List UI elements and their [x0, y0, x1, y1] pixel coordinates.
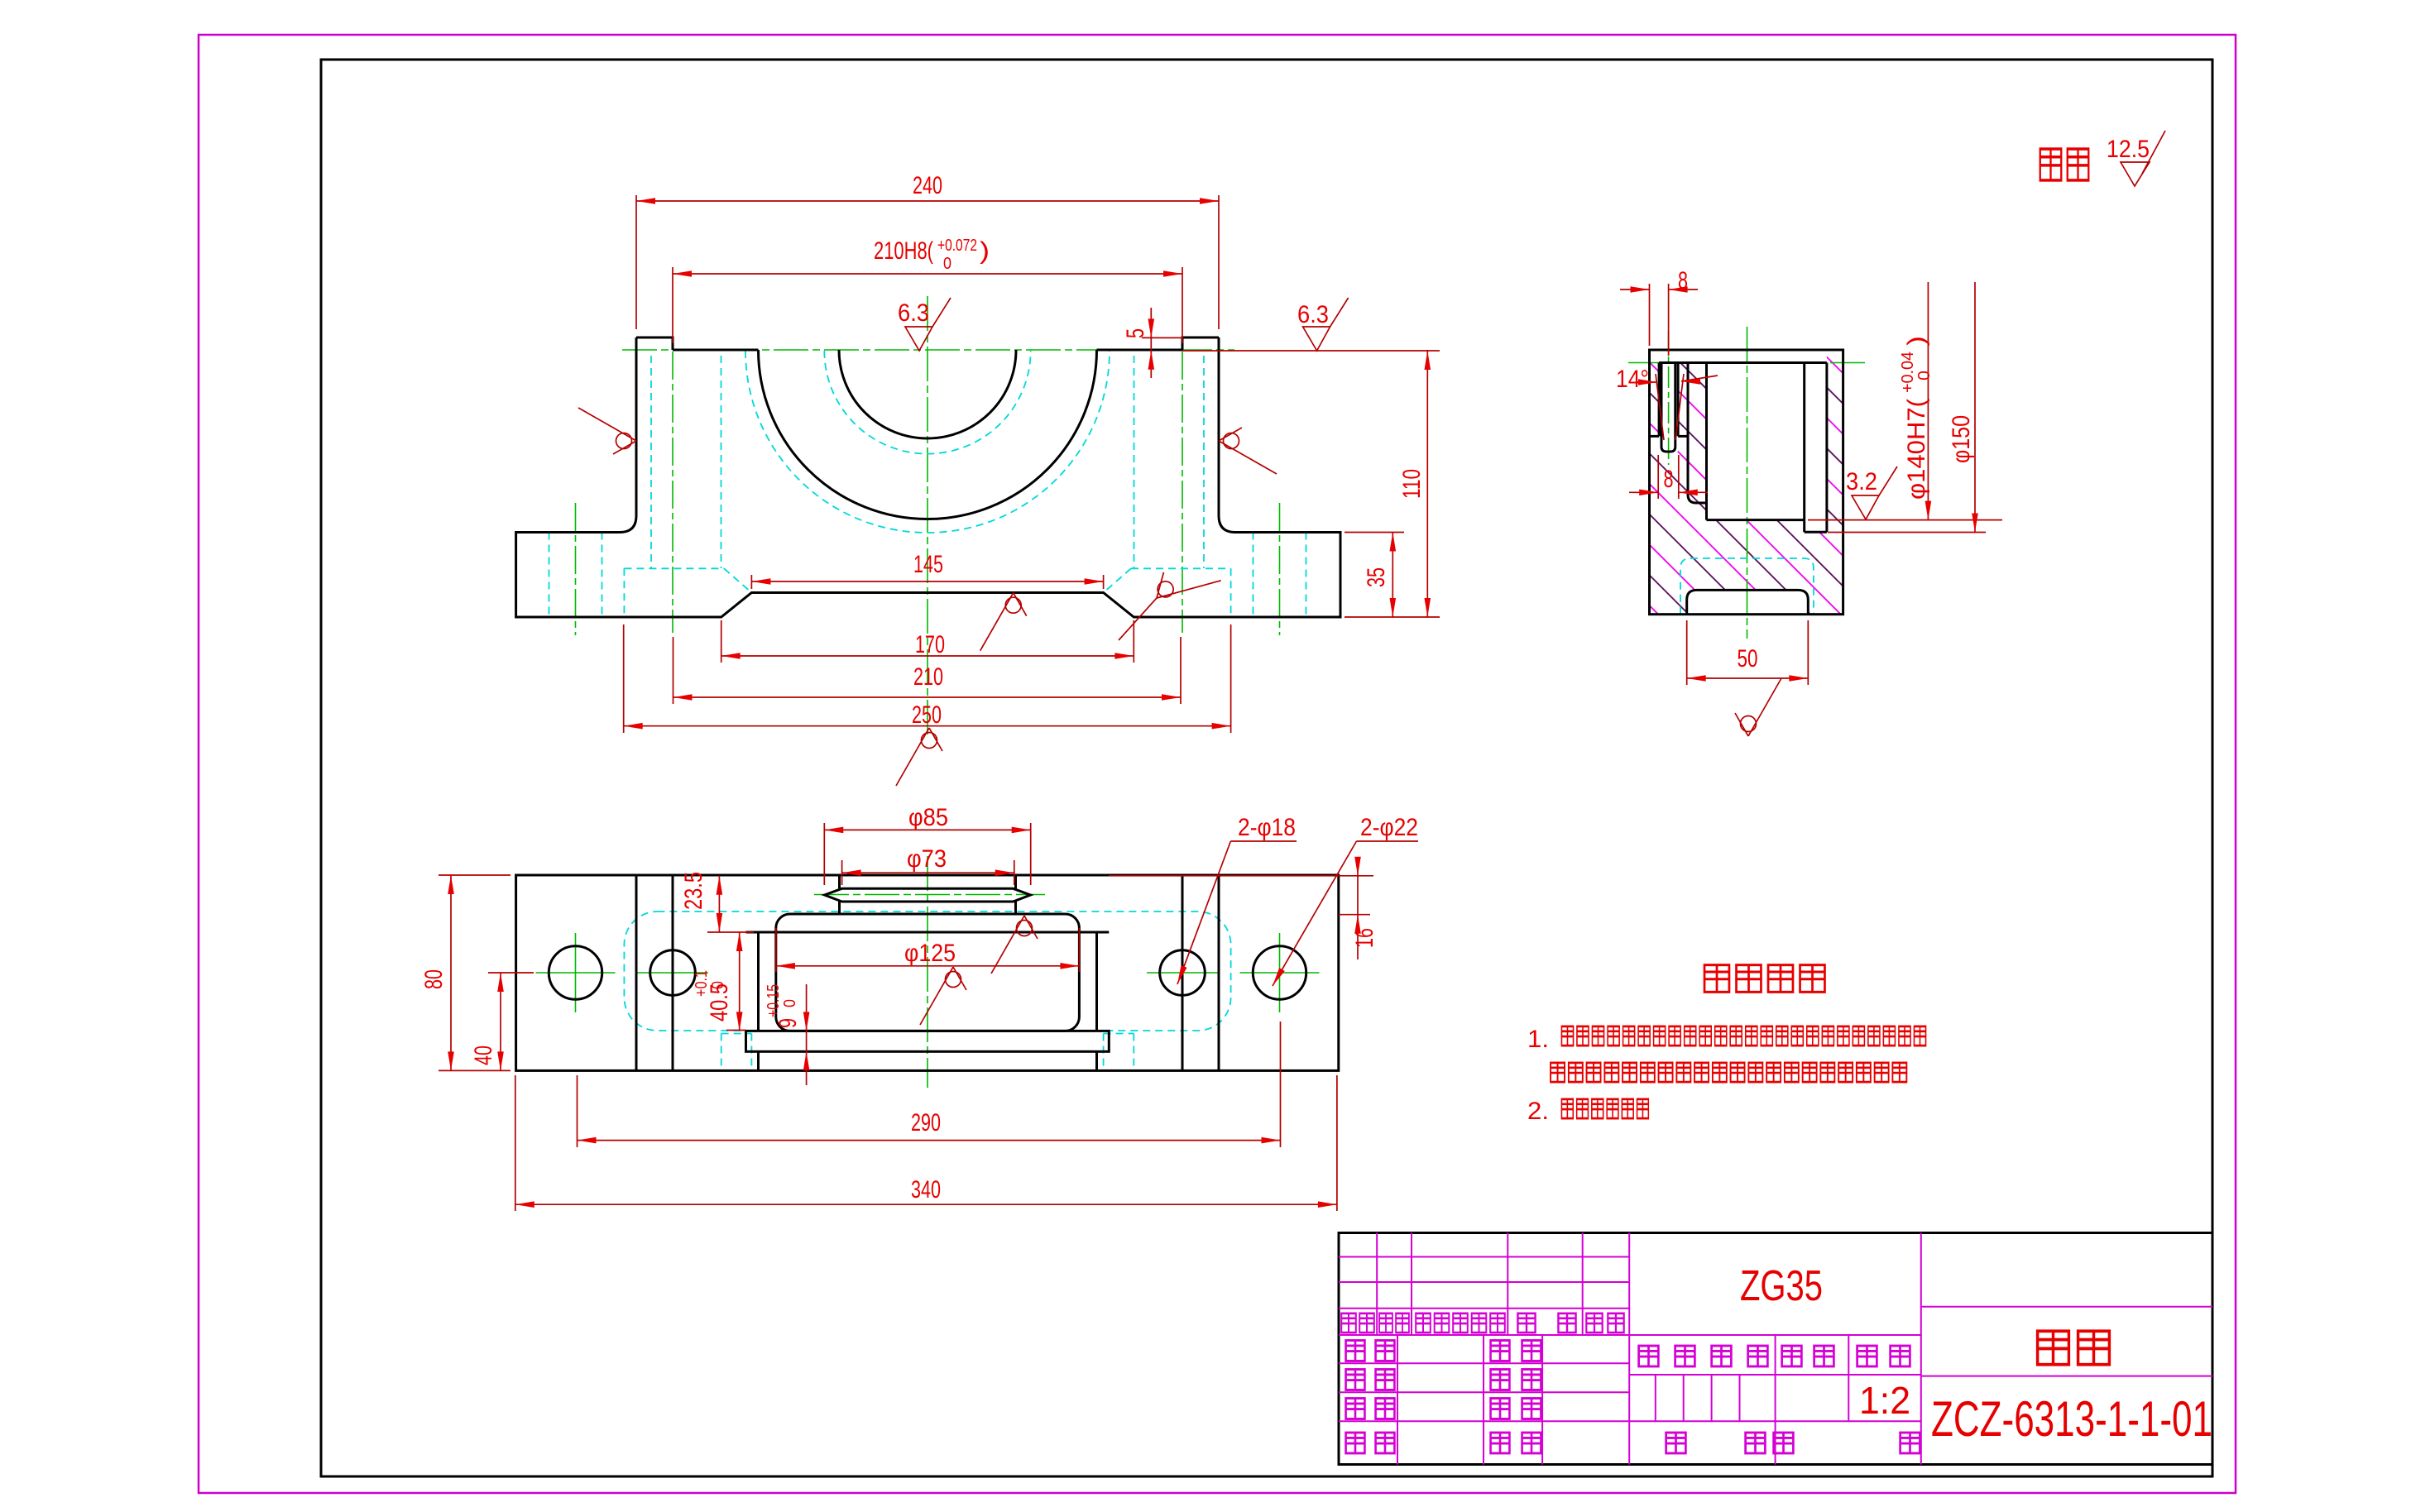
40: [488, 972, 534, 974]
svg-text:16: 16: [1351, 928, 1378, 948]
cyan hidden slot pocket section: [1680, 558, 1814, 615]
svg-text:8: 8: [1664, 466, 1674, 493]
svg-text:210: 210: [913, 663, 943, 691]
5 dim: [1142, 337, 1183, 338]
section red dims: [1620, 282, 2002, 685]
bottom slot: [1687, 590, 1809, 614]
svg-text:110: 110: [1398, 469, 1426, 499]
svg-text:φ150: φ150: [1948, 415, 1975, 463]
green centerlines top view: [536, 856, 1320, 1088]
hidden bolt hole lines: [549, 533, 550, 618]
recess floor segments: [673, 349, 759, 352]
svg-text:210H8(: 210H8(: [874, 237, 933, 265]
svg-text:40: 40: [470, 1045, 497, 1065]
svg-text:1.: 1.: [1527, 1026, 1549, 1053]
phi140 edges: [757, 932, 760, 1031]
svg-text:φ85: φ85: [908, 804, 948, 831]
svg-text:6.3: 6.3: [1297, 301, 1329, 328]
svg-text:2-φ18: 2-φ18: [1238, 814, 1296, 841]
inner black border frame: [321, 60, 2212, 1476]
svg-text:ZG35: ZG35: [1740, 1262, 1823, 1310]
svg-text:0: 0: [781, 999, 799, 1007]
phi73 semicircle: [839, 350, 1016, 438]
svg-text:8: 8: [1678, 267, 1688, 294]
210H8: [672, 267, 673, 343]
2-phi18 2-phi22 leaders: [1230, 840, 1297, 842]
svg-text:φ73: φ73: [907, 845, 947, 873]
210: [673, 637, 674, 704]
svg-text:0: 0: [709, 981, 727, 989]
hatching: [1650, 350, 1843, 615]
green centerlines front view: [576, 296, 1280, 736]
svg-text:+0.1: +0.1: [693, 970, 711, 997]
80: [439, 874, 510, 876]
phi73 boss: [838, 875, 841, 888]
svg-text:145: 145: [913, 551, 943, 578]
145: [750, 575, 752, 589]
svg-text:240: 240: [913, 172, 942, 199]
phi140 semicircle: [759, 350, 1097, 519]
16: [1109, 875, 1373, 877]
hidden phi150 semicircle: [745, 351, 1110, 533]
svg-text:+0.072: +0.072: [937, 237, 977, 255]
svg-text:2-φ22: 2-φ22: [1360, 814, 1418, 841]
250: [623, 624, 625, 733]
23.5: [707, 931, 754, 933]
phi125 pocket: [776, 914, 1080, 1031]
svg-text:6.3: 6.3: [898, 299, 929, 327]
green centerlines section: [1628, 327, 1865, 639]
svg-text:1:2: 1:2: [1859, 1379, 1910, 1422]
cyan hidden lines front view: [549, 351, 1306, 617]
section symbols: [1735, 467, 1897, 736]
170: [721, 620, 722, 663]
svg-text:0: 0: [1915, 371, 1934, 380]
svg-text:): ): [1903, 336, 1930, 346]
svg-text:φ125: φ125: [904, 940, 956, 967]
svg-text:φ140H7(: φ140H7(: [1903, 399, 1930, 500]
phi125: [775, 928, 777, 972]
hidden phi85 semicircle: [824, 351, 1030, 454]
svg-text:2.: 2.: [1527, 1098, 1549, 1125]
340: [515, 1075, 516, 1211]
black outline section: [1650, 350, 1843, 615]
phi85: [823, 823, 825, 885]
6.3 leader right: [1182, 350, 1440, 352]
9: [806, 984, 808, 1085]
phi150 bar: [746, 1031, 1110, 1051]
svg-text:ZCZ-6313-1-1-01: ZCZ-6313-1-1-01: [1931, 1391, 2212, 1447]
svg-text:+0.04: +0.04: [1899, 352, 1917, 393]
110: [1426, 350, 1428, 617]
svg-text:250: 250: [912, 701, 942, 729]
svg-text:50: 50: [1738, 645, 1758, 672]
phi140H7 / phi150 dims: [1808, 519, 2002, 521]
lower 8 dim: [1657, 455, 1659, 499]
svg-text:): ): [980, 237, 990, 265]
40.5: [726, 1030, 746, 1031]
svg-text:14°: 14°: [1616, 366, 1649, 393]
svg-text:35: 35: [1363, 567, 1390, 587]
svg-text:80: 80: [420, 969, 448, 989]
svg-text:+0.15: +0.15: [765, 984, 783, 1017]
phi73: [841, 860, 843, 885]
svg-text:23.5: 23.5: [680, 872, 707, 910]
35: [1345, 532, 1404, 534]
svg-text:5: 5: [1122, 328, 1149, 338]
front surface symbols: [578, 298, 1349, 786]
14 deg taper construction: [1656, 374, 1664, 440]
290: [577, 1075, 578, 1147]
oil hole: [1658, 363, 1661, 437]
svg-text:170: 170: [915, 631, 945, 658]
black outline front view: [516, 337, 1340, 617]
svg-text:340: 340: [911, 1176, 941, 1203]
svg-text:9: 9: [774, 1018, 802, 1028]
svg-text:3.2: 3.2: [1846, 468, 1877, 495]
svg-text:12.5: 12.5: [2107, 136, 2150, 163]
svg-text:0: 0: [943, 255, 951, 273]
cyan hidden top view: [624, 912, 1230, 1070]
svg-text:290: 290: [911, 1109, 941, 1136]
bore: [1687, 363, 1690, 495]
top view surface symbols: [920, 916, 1038, 1025]
50 dim: [1686, 620, 1688, 685]
240: [635, 195, 637, 329]
black top view: [516, 875, 1339, 1070]
hidden bottom pocket: [624, 567, 724, 569]
hidden verticals in body: [650, 356, 652, 568]
